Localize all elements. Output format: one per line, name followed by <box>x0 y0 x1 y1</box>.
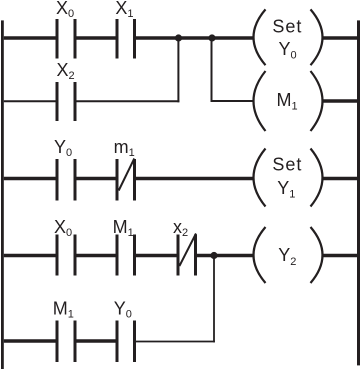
svg-text:Set: Set <box>272 155 302 175</box>
svg-text:Set: Set <box>272 17 302 37</box>
